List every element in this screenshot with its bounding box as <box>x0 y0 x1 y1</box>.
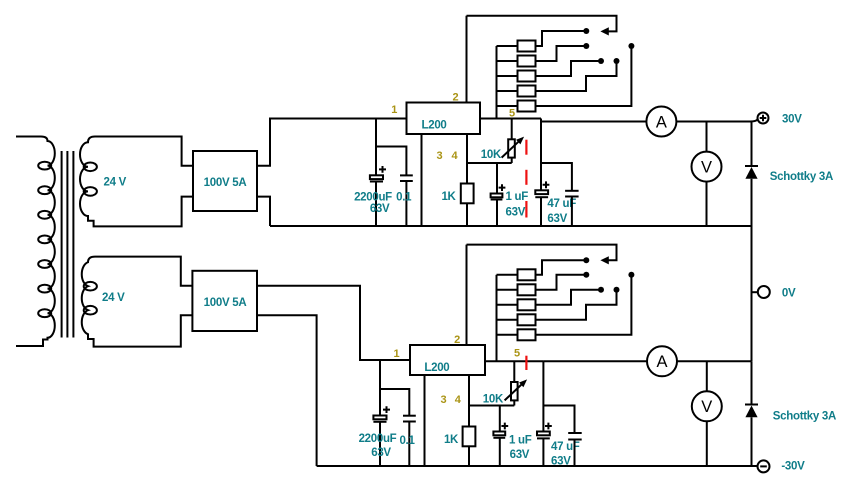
switch S2 contact dot 1 <box>583 257 589 263</box>
wire U1 pin4 to R1 <box>466 134 468 184</box>
wire bus stub to RL10 <box>497 334 518 336</box>
wire RL1 to contact 1 <box>536 31 587 46</box>
wire U2 pin4 to R2 <box>468 375 470 427</box>
wire BR2 - output to -30V rail <box>257 315 317 466</box>
wire bus stub to RL3 <box>497 75 518 77</box>
capacitor C5 (top supply) <box>565 191 579 226</box>
svg-text:100V 5A: 100V 5A <box>204 297 247 309</box>
svg-text:V: V <box>701 158 712 176</box>
potentiometer P2 10K body (bottom) <box>511 382 518 400</box>
wire bus stub to RL4 <box>497 90 518 92</box>
svg-text:0V: 0V <box>782 288 796 300</box>
svg-text:63V: 63V <box>371 447 391 459</box>
wire 0V node to diode D2 <box>751 361 753 404</box>
svg-text:63V: 63V <box>370 203 390 215</box>
voltmeter V1 (top) <box>692 152 722 182</box>
wire 0V rail (top supply ground rail) <box>270 225 752 227</box>
wire bus stub to RL1 <box>497 45 518 47</box>
wire output node to diode D1 <box>751 122 753 167</box>
wire RL5 to contact 5 <box>536 46 632 106</box>
wire RL3 to contact 3 <box>536 61 602 76</box>
resistor RL1 (ladder, top) <box>518 41 536 52</box>
switch S2 contact dot 4 <box>614 287 620 293</box>
wire bus stub to RL7 <box>497 289 518 291</box>
capacitor C2 0.1 (top supply) <box>400 175 413 226</box>
svg-text:10K: 10K <box>483 394 504 406</box>
wire RL7 to contact 2 (S2) <box>536 275 587 290</box>
transformer T1 primary winding loops <box>38 162 51 317</box>
resistor RL5 (ladder, top) <box>518 101 536 112</box>
wire -30V rail (bottom supply rail) <box>317 465 758 467</box>
wire node to voltmeter V1 <box>706 122 708 152</box>
ammeter A2 (bottom) <box>647 346 677 376</box>
capacitor C1 2200uF 63V (polarized, top supply) <box>370 175 383 226</box>
svg-text:63V: 63V <box>510 449 530 461</box>
wire pin5 to potentiometer P2 <box>513 361 515 382</box>
wire V2 to -30V rail <box>706 421 708 466</box>
wire pin5 node down to C4 <box>540 119 542 191</box>
potentiometer P1 arrow <box>502 137 524 158</box>
wire RL2 to contact 2 <box>536 46 587 61</box>
wire bus stub to RL9 <box>497 319 518 321</box>
svg-text:0.1: 0.1 <box>396 191 412 203</box>
svg-text:V: V <box>701 398 712 416</box>
wire RL6 to contact 1 (S2) <box>536 260 587 275</box>
wire U1 pin5 wire <box>480 118 541 120</box>
wire bus stub to RL8 <box>497 304 518 306</box>
red dashed mark (bottom supply) <box>525 356 527 370</box>
svg-text:1K: 1K <box>444 434 459 446</box>
svg-text:63V: 63V <box>506 207 526 219</box>
wire U2 pin5 wire <box>485 360 543 362</box>
svg-text:24 V: 24 V <box>104 177 127 189</box>
diode D1 Schottky 3A (top) <box>745 166 758 226</box>
wire V1 to ground rail <box>706 182 708 226</box>
svg-text:2: 2 <box>452 92 458 104</box>
wire RL8 to contact 3 (S2) <box>536 290 602 305</box>
wire bus stub to RL5 <box>497 105 518 107</box>
wire BR1 - output to ground rail (top) <box>257 197 270 226</box>
wire R2 to rail <box>468 446 470 466</box>
wire bus stub to RL2 <box>497 60 518 62</box>
voltmeter V2 (bottom) <box>692 391 722 421</box>
capacitor C9 47uF 63V (polarized, bottom supply) <box>537 432 550 467</box>
wire A1 to +30V terminal <box>676 119 757 122</box>
switch S2 contact dot 5 <box>628 272 634 278</box>
regulator U2 L200 (bottom) <box>410 345 485 375</box>
wire pin5 to potentiometer P1 <box>511 119 513 140</box>
wire resistor ladder bus (bottom) <box>496 275 498 362</box>
resistor R2 1K (bottom) <box>463 427 476 447</box>
svg-text:L200: L200 <box>424 362 449 374</box>
potentiometer P2 arrow <box>505 379 527 400</box>
svg-text:A: A <box>656 113 667 131</box>
capacitor C7 0.1 (bottom supply) <box>403 416 416 466</box>
wire RL4 to contact 4 <box>536 61 617 91</box>
regulator U1 L200 (top) <box>407 103 481 135</box>
svg-text:30V: 30V <box>782 113 802 125</box>
wire BR1 + output to L200 pin1 <box>257 119 407 166</box>
svg-text:3: 3 <box>436 150 442 162</box>
svg-text:1: 1 <box>391 104 397 116</box>
capacitor C10 (bottom supply) <box>568 433 582 466</box>
switch S1 contact dot 2 <box>583 43 589 49</box>
wire resistor ladder bus (top) <box>496 46 498 119</box>
switch S1 wiper arrow <box>600 27 608 35</box>
wire pin4 node to potentiometer P1 <box>467 162 512 164</box>
resistor RL3 (ladder, top) <box>518 71 536 82</box>
wire U2 pin3 to rail <box>424 375 426 466</box>
plus mark C1 <box>379 166 386 173</box>
wire switch S1 top wire <box>467 16 617 32</box>
svg-text:1 uF: 1 uF <box>506 191 529 203</box>
wire U1 pin2 riser <box>466 16 468 103</box>
wire C1 to C2 branch <box>376 147 406 176</box>
resistor R1 1K (top) <box>461 184 474 204</box>
capacitor C4 47uF 63V (polarized, top supply) <box>535 190 548 226</box>
ammeter A1 (top) <box>646 107 676 137</box>
wire RL9 to contact 4 (S2) <box>536 290 617 320</box>
plus mark C3 <box>499 184 506 191</box>
wire A2 to 0V node <box>677 360 752 362</box>
switch S1 contact dot 3 <box>598 58 604 64</box>
wire C4 to C5 branch <box>541 163 572 191</box>
resistor RL4 (ladder, top) <box>518 86 536 97</box>
svg-text:3: 3 <box>440 394 446 406</box>
transformer secondary winding 2 (24V bottom) with leads to bridge <box>82 257 193 347</box>
plus mark C9 <box>545 423 552 430</box>
svg-text:10K: 10K <box>481 149 502 161</box>
svg-text:1 uF: 1 uF <box>509 435 532 447</box>
terminal 0V <box>758 286 770 298</box>
plus mark C8 <box>501 423 508 430</box>
svg-text:2200uF: 2200uF <box>354 191 392 203</box>
svg-text:1K: 1K <box>441 191 456 203</box>
capacitor C3 1uF 63V (top supply) <box>491 194 503 227</box>
plus mark C4 <box>543 181 550 188</box>
resistor RL10 (ladder, bottom) <box>518 329 536 340</box>
svg-text:4: 4 <box>455 394 462 406</box>
wire regulator output to ammeter A2 <box>543 360 647 362</box>
svg-text:L200: L200 <box>422 120 447 132</box>
transformer core <box>62 151 74 338</box>
capacitor C8 1uF 63V (bottom supply) <box>493 432 505 467</box>
terminal -30V <box>758 460 770 472</box>
svg-text:Schottky 3A: Schottky 3A <box>773 411 836 423</box>
switch S1 contact dot 4 <box>614 58 620 64</box>
secondary 1 winding loops <box>84 163 97 196</box>
wire R1 to ground rail <box>466 203 468 226</box>
wire pin5 node down to C9 <box>542 361 544 431</box>
wire L200 pin1 node to C1 <box>375 119 377 176</box>
svg-text:Schottky 3A: Schottky 3A <box>770 171 833 183</box>
svg-text:0.1: 0.1 <box>399 435 415 447</box>
wire junction to C8 <box>499 406 501 432</box>
wire 0V terminal stub <box>752 291 758 293</box>
svg-text:100V 5A: 100V 5A <box>204 177 247 189</box>
transformer T1 primary winding <box>16 137 55 347</box>
resistor RL8 (ladder, bottom) <box>518 299 536 310</box>
resistor RL9 (ladder, bottom) <box>518 314 536 325</box>
svg-text:24 V: 24 V <box>102 292 125 304</box>
bridge rectifier BR2 100V 5A (bottom) <box>192 271 257 331</box>
switch S1 contact dot 5 <box>628 43 634 49</box>
svg-text:-30V: -30V <box>781 461 805 473</box>
switch S2 contact dot 2 <box>583 272 589 278</box>
wire P2 wiper to pin4 node <box>513 400 515 405</box>
diode D2 Schottky 3A (bottom) <box>745 405 758 467</box>
wire U1 pin3 to ground rail <box>421 134 423 226</box>
potentiometer P1 10K body (top) <box>508 139 515 157</box>
svg-text:2200uF: 2200uF <box>359 433 397 445</box>
secondary 2 winding loops <box>84 282 97 315</box>
svg-text:5: 5 <box>514 348 520 360</box>
resistor RL2 (ladder, top) <box>518 56 536 67</box>
wire U2 pin2 riser <box>466 245 468 345</box>
svg-text:63V: 63V <box>547 213 567 225</box>
switch S2 contact dot 3 <box>598 287 604 293</box>
terminal +30V <box>758 113 769 124</box>
red dashed mark (top supply) <box>525 140 527 218</box>
wire switch S2 top wire <box>467 245 617 261</box>
plus mark C6 <box>383 406 390 413</box>
wire C6 to C7 branch <box>380 389 409 416</box>
transformer secondary winding 1 (24V top) with leads to bridge <box>80 137 193 227</box>
bridge rectifier BR1 100V 5A (top) <box>193 151 257 211</box>
wire BR2 node to C6 <box>379 360 381 416</box>
resistor RL7 (ladder, bottom) <box>518 284 536 295</box>
wire 0V rail to 0V terminal and lower supply <box>751 226 753 361</box>
wire BR2 + output to L200 pin1 (bottom) <box>257 286 410 360</box>
wire P1 wiper to pin4 node <box>511 158 513 163</box>
capacitor C6 2200uF 63V (polarized, bottom supply) <box>373 416 386 467</box>
wire C9 to C10 branch <box>543 406 574 434</box>
svg-text:1: 1 <box>393 348 399 360</box>
wire regulator output to ammeter A1 <box>541 121 646 123</box>
wire RL10 to contact 5 (S2) <box>536 275 632 335</box>
svg-text:4: 4 <box>452 150 459 162</box>
svg-text:A: A <box>656 353 667 371</box>
wire junction to C3 <box>496 163 498 194</box>
wire pin4 node to potentiometer P2 <box>469 405 514 407</box>
resistor RL6 (ladder, bottom) <box>518 269 536 280</box>
switch S1 contact dot 1 <box>583 28 589 34</box>
wire node to voltmeter V2 <box>706 361 708 391</box>
switch S2 wiper arrow <box>600 256 608 264</box>
svg-text:2: 2 <box>454 334 460 346</box>
svg-text:63V: 63V <box>551 455 571 467</box>
wire bus stub to RL6 <box>497 274 518 276</box>
